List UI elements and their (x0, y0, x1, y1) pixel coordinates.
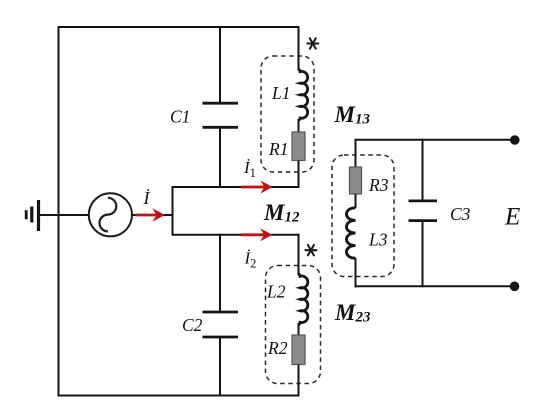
svg-text:R1: R1 (268, 139, 288, 159)
dashed box L2 R2 (266, 266, 321, 384)
AC source (89, 193, 132, 236)
arrow I1 (241, 180, 273, 193)
svg-text:L2: L2 (266, 282, 286, 302)
wire: ground to source (40, 214, 89, 216)
resistor R2 (292, 335, 305, 397)
dashed box R3 L3 (332, 155, 394, 277)
wire: secondary top rail (356, 139, 515, 140)
arrow I (current from source) (135, 208, 165, 222)
wire: left rail (58, 27, 60, 396)
svg-text:İ: İ (143, 188, 151, 208)
svg-text:C3: C3 (450, 204, 471, 224)
terminal dot bottom (510, 282, 520, 292)
node: splitter left edge (172, 187, 174, 235)
inductor L3 (347, 208, 356, 288)
svg-text:R3: R3 (368, 175, 389, 195)
resistor R1 (292, 132, 305, 188)
svg-text:C1: C1 (170, 107, 190, 127)
svg-text:R2: R2 (267, 338, 288, 358)
svg-text:C2: C2 (182, 315, 203, 335)
wire: secondary bottom rail (356, 285, 515, 287)
capacitor C1 (203, 26, 239, 188)
polarity mark L2 (305, 245, 316, 255)
wire: upper branch (172, 186, 300, 188)
wire: source to splitter (132, 214, 173, 216)
svg-text:L1: L1 (271, 83, 290, 103)
capacitor C3 (409, 139, 438, 287)
inductor L1 (298, 26, 308, 132)
wire: bottom rail (58, 395, 300, 397)
ground (26, 200, 38, 231)
inductor L2 (298, 234, 308, 335)
polarity mark L1 (307, 38, 318, 48)
dashed box L1 R1 (261, 56, 314, 172)
svg-text:L3: L3 (368, 230, 388, 250)
arrow I2 (241, 228, 272, 241)
svg-text:E: E (504, 204, 520, 231)
wire: lower branch (172, 234, 300, 236)
wire: top rail (58, 26, 300, 28)
capacitor C2 (203, 234, 239, 397)
terminal dot top (510, 135, 520, 145)
resistor R3 (350, 139, 362, 208)
